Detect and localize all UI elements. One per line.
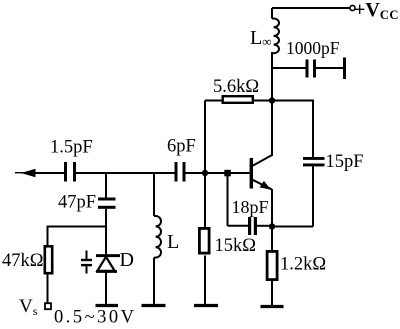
node collector junction (269, 97, 275, 103)
node 18pF tap junction (square) (224, 170, 231, 177)
svg-text:0.5~30V: 0.5~30V (54, 308, 137, 328)
+Vcc terminal circle (350, 5, 355, 10)
wire diode to ground (105, 272, 107, 306)
svg-text:1.5pF: 1.5pF (50, 138, 93, 158)
wire L branch from base line (153, 173, 155, 216)
wire stub rail to choke (271, 8, 273, 19)
svg-text:15pF: 15pF (326, 152, 364, 172)
resistor 47kOhm (45, 246, 52, 303)
wire main vertical (choke to collector node) (271, 52, 273, 156)
wire collector node to 15pF branch (272, 101, 313, 158)
svg-text:6pF: 6pF (167, 137, 196, 157)
wire base line between 1.5pF and 6pF (76, 172, 175, 174)
wire emitter node to 15pF bottom (272, 226, 313, 228)
svg-text:5.6kΩ: 5.6kΩ (213, 77, 259, 97)
capacitor 47pF (98, 173, 116, 255)
node emitter junction (269, 223, 275, 229)
capacitor 15pF (303, 157, 325, 227)
inductor L (tank) (154, 216, 161, 258)
transistor Q1 (250, 155, 273, 190)
capacitor 1000pF (272, 58, 346, 80)
ground under L (142, 304, 166, 307)
resistor R 5.6k (205, 96, 272, 103)
wire L to ground (153, 258, 155, 306)
ground under 1.2k (261, 305, 284, 308)
svg-text:D: D (120, 249, 134, 271)
Vs terminal square (45, 303, 51, 309)
svg-text:47pF: 47pF (58, 193, 96, 213)
capacitor 6pF (175, 162, 186, 182)
ground under 15k (194, 304, 218, 307)
svg-text:L: L (167, 231, 179, 253)
svg-text:18pF: 18pF (232, 197, 269, 217)
capacitor 1.5pF (64, 162, 76, 182)
wire top rail to Vcc (272, 7, 350, 9)
wire output arrow terminal (15, 169, 64, 178)
node base bias junction (202, 170, 208, 176)
resistor 1.2kOhm (267, 227, 277, 306)
resistor 15kOhm (199, 173, 209, 305)
svg-text:47kΩ: 47kΩ (2, 251, 44, 271)
svg-text:1000pF: 1000pF (286, 38, 340, 58)
svg-text:1.2kΩ: 1.2kΩ (280, 255, 326, 275)
wire base line 6pF to transistor base (186, 172, 250, 174)
capacitor 18pF (228, 173, 273, 235)
wire emitter down (271, 189, 273, 227)
svg-text:15kΩ: 15kΩ (215, 236, 257, 256)
inductor L-infinity (RF choke) (272, 19, 279, 54)
wire 5.6k left leg down to base line (204, 101, 206, 174)
wire link to 47k branch (48, 227, 107, 246)
ground under diode (96, 304, 119, 307)
varactor diode D (81, 251, 120, 274)
